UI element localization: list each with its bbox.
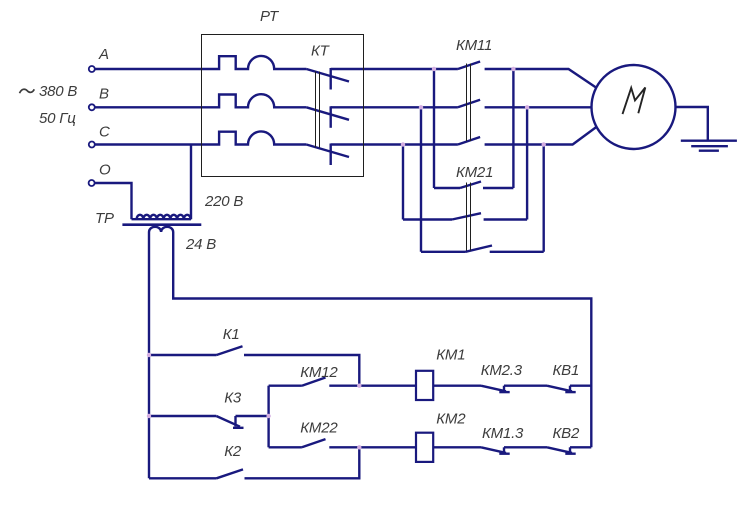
wire B-out down to KM21: [526, 107, 528, 219]
node dot C out: [542, 142, 546, 146]
contact KM21 c2 right wire: [484, 218, 527, 220]
wire 220V tap from phase C to transformer: [190, 145, 192, 220]
wire phase C after KT: [331, 143, 458, 145]
contact KB1 blade: [547, 386, 572, 392]
wire KM12 to KM1 coil: [329, 385, 416, 387]
wire phase C to motor: [485, 127, 597, 145]
svg-text:О: О: [99, 162, 111, 179]
transformer TP secondary winding: [149, 227, 173, 232]
svg-text:КМ1.3: КМ1.3: [482, 425, 524, 442]
svg-text:КВ1: КВ1: [553, 362, 580, 379]
contact KM1.3 post: [503, 447, 505, 452]
wire KM12/KM22 branch vertical: [267, 386, 269, 448]
wire phase A to motor: [485, 69, 596, 88]
contact KB2 post: [569, 447, 571, 452]
contact KT phase B blade: [306, 107, 349, 120]
contact KM21 c3 blade: [466, 246, 493, 252]
label M motor: [623, 88, 646, 115]
motor M circle: [592, 65, 676, 149]
terminal O: [89, 180, 95, 186]
wire row KM12 left: [269, 385, 302, 387]
contact KM21 c2 left wire: [403, 218, 452, 220]
svg-text:С: С: [99, 124, 110, 141]
wire tap A down to KM21: [433, 69, 435, 188]
contact KM21 c3 left wire: [421, 251, 466, 253]
wire phase A after KT: [331, 68, 458, 70]
contact KB2 foot: [565, 453, 575, 455]
svg-text:К2: К2: [224, 443, 242, 460]
wire tap B down to KM21: [420, 107, 422, 252]
contact KT phase A post: [330, 68, 332, 90]
node dot KM1 row: [357, 384, 361, 388]
node dot B tap: [419, 105, 423, 109]
node dot KM2 row: [357, 445, 361, 449]
contact KM11 phase A blade: [458, 62, 480, 70]
contact KT phase C blade: [306, 145, 349, 158]
box PT outline: [202, 35, 364, 177]
node dot B out: [525, 105, 529, 109]
coil KM2: [416, 433, 433, 462]
contact KM21 c1 left wire: [434, 187, 460, 189]
svg-text:КМ21: КМ21: [456, 164, 493, 181]
svg-text:КМ1: КМ1: [436, 347, 465, 364]
contact KB1 post: [569, 386, 571, 391]
wire row K3: [149, 415, 216, 417]
svg-text:380 В: 380 В: [39, 83, 77, 100]
transformer TP core bar: [122, 223, 201, 226]
contact KM21 c1 blade: [460, 182, 481, 189]
wire 24V right lead / top bus / right bus: [173, 232, 591, 447]
svg-text:К3: К3: [224, 389, 242, 406]
node dot A tap: [432, 67, 436, 71]
wire phase C with breaker bump: [95, 131, 306, 144]
contact KM2.3 blade: [481, 386, 506, 392]
wire row KM22 left: [269, 446, 302, 448]
ground symbol: [681, 141, 737, 151]
contact KM12 blade: [302, 378, 326, 386]
svg-text:КМ12: КМ12: [300, 364, 338, 381]
svg-text:КМ11: КМ11: [456, 37, 492, 54]
linkage KM11: [467, 64, 471, 142]
svg-text:КВ2: КВ2: [553, 425, 580, 442]
contact KM2.3 post: [503, 386, 505, 391]
contact KM2.3 foot: [499, 391, 509, 393]
contact KM21 c2 blade: [452, 213, 481, 219]
contact KT phase C post: [330, 144, 332, 166]
contact KM21 c3 right wire: [490, 251, 544, 253]
wire K1 to KM1 row: [244, 355, 359, 386]
wire KM2.3 to KB1: [504, 385, 547, 387]
terminal A: [89, 66, 95, 72]
wire K3 right: [236, 415, 269, 417]
wire tap C down to KM21: [402, 145, 404, 220]
svg-text:КМ22: КМ22: [300, 420, 338, 437]
wire KM1.3 to KB2: [504, 446, 547, 448]
node dot K3 right: [266, 414, 270, 418]
contact K2 blade: [217, 469, 244, 478]
svg-text:А: А: [98, 46, 109, 63]
svg-text:РТ: РТ: [260, 8, 280, 25]
contact K3 blade: [216, 416, 240, 427]
transformer TP primary winding: [132, 215, 192, 219]
contact KB1 foot: [565, 391, 575, 393]
svg-text:КМ2: КМ2: [436, 411, 466, 428]
svg-text:24 В: 24 В: [185, 236, 216, 253]
contact KT phase A blade: [306, 69, 349, 82]
contact KB2 blade: [547, 447, 572, 453]
wire from terminal O: [95, 183, 132, 219]
wire A-out down to KM21: [512, 69, 514, 188]
wire KM2 coil to KM1.3: [433, 446, 481, 448]
svg-text:К1: К1: [223, 326, 240, 343]
wire K2 to KM22 row: [245, 447, 360, 478]
wire phase A with breaker QF bump: [95, 56, 306, 69]
contact KM21 c1 right wire: [483, 187, 513, 189]
node dot K1 left: [147, 353, 151, 357]
contact KM22 blade: [302, 439, 326, 447]
coil KM1: [416, 371, 433, 400]
wire phase B with breaker bump: [95, 94, 306, 107]
linkage KM21: [467, 183, 471, 251]
wire 24V left lead / left bus: [148, 232, 150, 478]
wire phase B after KT: [331, 106, 458, 108]
svg-text:В: В: [99, 86, 109, 103]
svg-text:КМ2.3: КМ2.3: [481, 362, 523, 379]
wire row K2: [149, 477, 217, 479]
node dot A out: [511, 67, 515, 71]
wire KM1 coil to KM2.3: [433, 385, 481, 387]
svg-text:ТР: ТР: [95, 210, 114, 227]
wire row K1: [149, 354, 217, 356]
terminal B: [89, 104, 95, 110]
contact KM11 phase C blade: [458, 137, 480, 145]
contact KM11 phase B blade: [458, 100, 480, 108]
contact KM1.3 blade: [481, 447, 506, 453]
contact K1 blade: [217, 346, 243, 355]
linkage KT: [316, 72, 320, 148]
svg-text:КТ: КТ: [311, 43, 331, 60]
wire KB1 to right bus: [570, 385, 591, 387]
terminal C: [89, 142, 95, 148]
wire phase B to motor: [485, 106, 592, 108]
contact K3 post: [233, 416, 244, 428]
contact KM1.3 foot: [499, 453, 509, 455]
wire KM22 to KM2 coil: [329, 446, 416, 448]
wire KB2 to right bus: [570, 446, 591, 448]
node dot C tap: [401, 142, 405, 146]
wire C-out down to KM21: [543, 145, 545, 252]
svg-text:50 Гц: 50 Гц: [39, 110, 76, 127]
svg-text:220 В: 220 В: [204, 193, 243, 210]
label ~ 380 V: [20, 89, 35, 93]
contact KT phase B post: [330, 106, 332, 128]
node dot K3 left: [147, 414, 151, 418]
wire motor to ground: [676, 107, 708, 141]
